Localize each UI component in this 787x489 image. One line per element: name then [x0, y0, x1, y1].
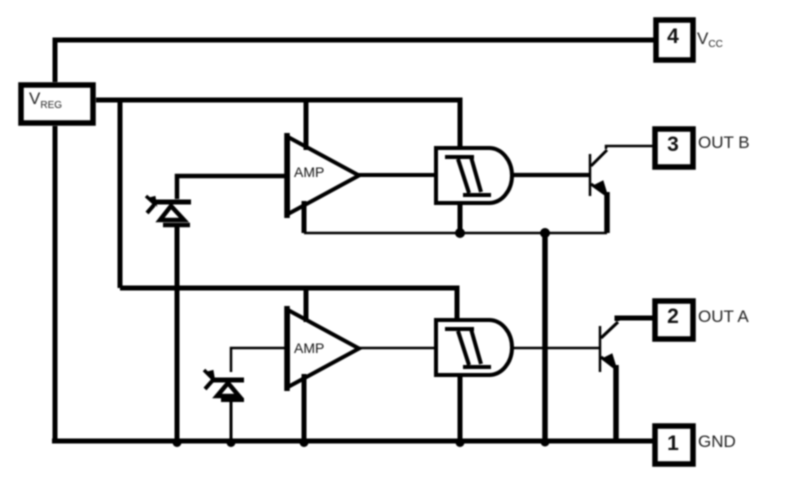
- zener D1 (top channel input clamp): [146, 196, 191, 225]
- svg-text:3: 3: [667, 133, 679, 156]
- op-amp AMP (bottom channel): [287, 306, 359, 391]
- wire branch down at x=120 to lower channel rail: [118, 100, 123, 288]
- wire bottom AMP output to bottom schmitt input: [356, 347, 434, 350]
- wire Q2 collector to pin 2: [617, 318, 654, 321]
- wire bottom AMP supply drop at x=306: [304, 288, 309, 322]
- wire bottom AMP bottom leg to ground rail: [302, 374, 307, 441]
- schmitt trigger (bottom channel): [436, 320, 512, 375]
- pin 4 box: [656, 20, 693, 60]
- svg-text:4: 4: [667, 25, 679, 48]
- wire Q1 collector to pin 3: [606, 146, 654, 149]
- svg-text:2: 2: [667, 305, 679, 328]
- junction bottom rail / bottom zener leg: [227, 438, 236, 447]
- wire bottom schmitt output to Q2 base: [510, 347, 600, 350]
- svg-text:OUT A: OUT A: [698, 307, 749, 326]
- wire top schmitt output to Q1 base: [510, 173, 590, 177]
- junction bottom rail / bottom AMP leg: [300, 438, 309, 447]
- pin 2 box: [655, 301, 693, 339]
- wire Q1 emitter down to emitter rail: [604, 192, 610, 233]
- regulator VREG box: [21, 85, 93, 123]
- wire bottom channel input: corner at x=231 to bottom AMP input: [231, 348, 287, 372]
- wire top emitter rail (y=233): [304, 232, 607, 235]
- wire Q2 emitter down to ground rail: [613, 365, 619, 441]
- wire top schmitt bottom leg to emitter rail: [458, 204, 463, 233]
- wire lower channel supply rail (y=288) to bottom schmitt supply: [120, 288, 457, 322]
- zener D2 (bottom channel input clamp): [204, 370, 244, 400]
- pin 3 box: [655, 129, 693, 167]
- wire VREG output rail (y=100) to top schmitt supply: [96, 100, 460, 148]
- wire drop from emitter rail down to ground rail at x=545: [542, 233, 548, 441]
- svg-text:1: 1: [667, 432, 679, 455]
- wire Vcc top rail from VREG to pin 4: [55, 40, 655, 82]
- junction bottom rail / top zener leg: [173, 438, 182, 447]
- wire bottom schmitt bottom leg to ground rail: [458, 377, 463, 441]
- transistor Q1 (top output, NPN): [590, 150, 607, 196]
- junction bottom rail / bottom schmitt leg: [456, 438, 465, 447]
- wire top AMP output to top schmitt input: [356, 173, 434, 177]
- svg-text:GND: GND: [698, 432, 736, 451]
- transistor Q2 (bottom output, NPN): [600, 322, 618, 372]
- svg-text:AMP: AMP: [294, 340, 324, 356]
- wire top channel input: corner at x=177 to top AMP input: [177, 176, 287, 199]
- svg-text:OUT B: OUT B: [698, 133, 750, 152]
- wire ground rail (y=441) to pin 1: [52, 439, 654, 444]
- schmitt trigger (top channel): [436, 148, 512, 203]
- wire bottom zener to ground rail: [230, 400, 233, 441]
- wire top zener to ground rail: [175, 224, 180, 441]
- wire VREG bottom / left ground leg down to ground rail: [53, 126, 58, 441]
- junction emitter rail / drop wire: [540, 228, 550, 238]
- junction drop wire / ground rail: [541, 438, 550, 447]
- op-amp AMP (top channel): [287, 133, 359, 218]
- svg-text:AMP: AMP: [294, 164, 324, 180]
- pin 1 box: [655, 426, 693, 464]
- junction top schmitt / emitter rail: [455, 228, 465, 238]
- wire top AMP supply drop at x=306: [304, 100, 309, 150]
- wire top AMP bottom leg to emitter rail: [302, 201, 307, 233]
